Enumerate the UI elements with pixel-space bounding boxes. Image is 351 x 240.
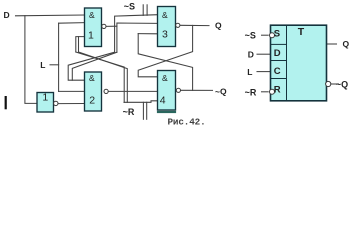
svg-text:~Q: ~Q bbox=[336, 80, 348, 90]
svg-text:~S: ~S bbox=[124, 1, 135, 11]
svg-text:~S: ~S bbox=[245, 31, 256, 41]
svg-text:L: L bbox=[40, 60, 45, 70]
svg-text:D: D bbox=[4, 10, 10, 20]
svg-text:D: D bbox=[274, 48, 281, 59]
svg-text:3: 3 bbox=[162, 29, 168, 41]
svg-text:2: 2 bbox=[89, 94, 95, 106]
svg-text:L: L bbox=[247, 67, 252, 77]
svg-text:4: 4 bbox=[160, 95, 166, 107]
svg-text:~R: ~R bbox=[123, 107, 135, 117]
svg-text:Q: Q bbox=[215, 20, 222, 30]
svg-text:&: & bbox=[162, 73, 168, 83]
svg-text:1: 1 bbox=[88, 29, 94, 41]
svg-text:C: C bbox=[274, 66, 281, 77]
svg-text:~R: ~R bbox=[245, 87, 257, 97]
svg-text:T: T bbox=[298, 26, 305, 38]
svg-text:Рис.42.: Рис.42. bbox=[168, 116, 206, 127]
svg-text:&: & bbox=[89, 10, 95, 20]
svg-text:1: 1 bbox=[42, 91, 48, 103]
svg-text:D: D bbox=[248, 50, 254, 60]
svg-text:&: & bbox=[162, 10, 168, 20]
svg-text:~Q: ~Q bbox=[215, 86, 227, 96]
svg-text:&: & bbox=[89, 73, 95, 83]
svg-text:R: R bbox=[274, 84, 281, 95]
svg-text:Q: Q bbox=[343, 39, 350, 49]
svg-text:S: S bbox=[274, 29, 280, 40]
